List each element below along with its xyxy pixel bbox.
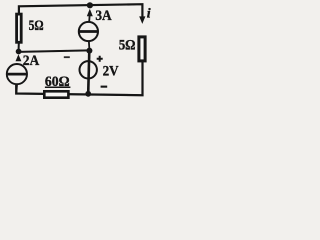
svg-text:2V: 2V [103, 62, 119, 79]
svg-text:i: i [147, 7, 151, 22]
node dot bottom [85, 91, 91, 97]
wire top [19, 4, 142, 17]
wire bottom [16, 62, 142, 95]
node dot left (node A) [16, 49, 22, 55]
plus sign 2V [97, 56, 103, 62]
current source I1 2A bar [8, 73, 27, 76]
svg-text:5Ω: 5Ω [29, 18, 44, 34]
current source I2 3A bar [79, 30, 97, 33]
wire middle (node A to node B) [19, 50, 90, 52]
minus sign 2V [101, 86, 108, 88]
wire 3A source leads [88, 16, 91, 49]
svg-text:3A: 3A [95, 7, 111, 24]
current source I1 2A circle [7, 64, 27, 84]
wire left (resistor to node) [18, 43, 20, 50]
arrow i down [139, 16, 145, 24]
node dot middle (node B) [86, 48, 92, 54]
label 60ohm underline [45, 87, 71, 89]
resistor R2 5ohm right [139, 37, 145, 61]
wire 2A source lead [15, 85, 18, 94]
arrow 2A up [16, 54, 22, 61]
voltage source V1 2V circle [80, 61, 97, 78]
arrow 3A up [87, 9, 93, 16]
resistor R1 5ohm left [17, 14, 22, 42]
wire 2V phi bar [88, 51, 89, 94]
resistor R3 60ohm bottom [44, 91, 68, 97]
current source I2 3A circle [79, 22, 98, 41]
svg-text:2A: 2A [23, 52, 40, 69]
svg-text:5Ω: 5Ω [119, 38, 136, 54]
stray scan mark [64, 56, 70, 58]
node dot top (3A top) [87, 2, 93, 8]
